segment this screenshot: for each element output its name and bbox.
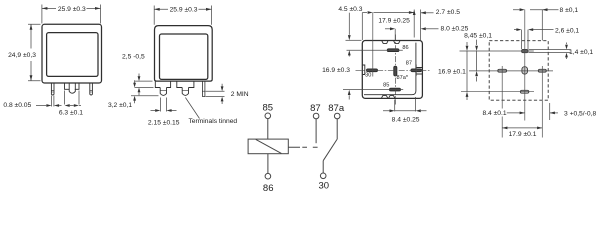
dim 25.9 view2: dim line: [154, 8, 211, 10]
dim 3.2 view2: ext line: [131, 95, 159, 97]
view1 right pin tin mark: [90, 91, 93, 92]
view3 slot 86: [387, 49, 399, 52]
contact blade: [323, 139, 337, 160]
dim 8 view4: line and arrows: [513, 9, 559, 11]
slots of view3: [367, 49, 422, 91]
view1 left pin: [51, 83, 54, 95]
view3 slot 30: [367, 69, 378, 72]
dim 0.8 view1: line and arrows: [36, 105, 46, 107]
svg-text:6.3 ±0.1: 6.3 ±0.1: [59, 110, 83, 117]
view2 center pin: [182, 88, 188, 96]
view4 pin 87a cross-section: [522, 67, 528, 74]
view4 pin 86 cross-section: [522, 50, 528, 53]
view1 center terminal collar: [65, 83, 80, 89]
view3 CL ext above box: [394, 29, 396, 40]
svg-text:2,5 -0,5: 2,5 -0,5: [122, 53, 145, 60]
view3 left edge notch: [363, 65, 365, 75]
dimension graphics: [28, 5, 571, 130]
terminals tinned leader: [185, 98, 199, 119]
dim 16.9 view3: bottom arrow: [348, 95, 350, 99]
dim 17.9 view4: line and arrows: [502, 127, 542, 129]
view1 inner cover line: [47, 33, 98, 77]
actuator dashed link: [288, 146, 317, 148]
view3 base outline: [362, 41, 422, 99]
wire blade to 30: [322, 161, 324, 174]
dim 16.9 view3: top ext line: [346, 39, 362, 41]
view1 left pin tin mark: [51, 91, 54, 92]
wire 87a stub: [336, 119, 338, 140]
view2 center pin tin mark: [182, 89, 188, 91]
view2 inner cover line: [160, 34, 208, 79]
view2 left pin tin mark: [160, 89, 166, 91]
view3 right edge cutout: [416, 68, 422, 75]
view1 right pin: [90, 83, 93, 95]
dim 3.2 view2: arrows: [134, 80, 136, 103]
dim 6.3 view1: ext lines: [65, 91, 80, 105]
view3 slot87 crosshair vertical: [415, 65, 417, 77]
dim 25.9 view1: arrows: [42, 7, 48, 10]
dim 16.9 view3: bottom ext line: [343, 89, 403, 91]
dim 0.8 view1: ext lines: [52, 96, 54, 107]
view4 vertical centerline: [524, 10, 526, 121]
dim 1.4 view4: arrows: [566, 43, 568, 60]
dim 8.4 view3: ext lines: [395, 97, 416, 112]
svg-text:25.9 ±0.3: 25.9 ±0.3: [58, 6, 86, 13]
svg-text:17.9 ±0.1: 17.9 ±0.1: [509, 131, 537, 138]
view4 pin87 crosshair vertical: [541, 66, 543, 138]
svg-text:2.7 ±0.5: 2.7 ±0.5: [436, 9, 460, 16]
svg-text:3 +0,5/-0,8: 3 +0,5/-0,8: [564, 111, 596, 118]
dim 2.15 view2: line and arrows: [151, 110, 177, 112]
view3 ext line x414: [413, 10, 415, 38]
svg-text:86: 86: [402, 45, 408, 51]
svg-text:30: 30: [319, 181, 330, 192]
dim 8.4 view4: line and arrows: [507, 112, 525, 114]
svg-text:30: 30: [365, 73, 371, 79]
svg-text:25.9 ±0.3: 25.9 ±0.3: [170, 7, 198, 14]
view1 outer case: [42, 24, 102, 83]
terminal circle 87: [313, 113, 319, 119]
svg-text:87: 87: [406, 60, 412, 66]
view2 right thin pin: [202, 81, 205, 97]
dim 8.0 view3: left segment: [385, 28, 390, 30]
view3 ext line x420.6: [420, 10, 422, 41]
dim 8.4 view3: line and arrows: [383, 110, 427, 112]
svg-text:8 ±0,1: 8 ±0,1: [560, 7, 579, 14]
view2 left pedestal: [155, 81, 170, 87]
dim 2.5 view2: arrows: [138, 74, 140, 96]
wire 85 to coil: [267, 119, 269, 140]
svg-text:8.4 ±0.1: 8.4 ±0.1: [482, 110, 506, 117]
svg-text:4.5 ±0.3: 4.5 ±0.3: [338, 6, 362, 13]
svg-text:8,45 ±0,1: 8,45 ±0,1: [464, 33, 492, 40]
dim 16.9 view4: arrows: [466, 42, 468, 100]
svg-text:17.9 ±0.25: 17.9 ±0.25: [378, 17, 410, 24]
dim 2.5 view2: ext lines: [135, 81, 154, 87]
dim 2.6 view4: ext lines: [522, 30, 528, 49]
view2 left pin: [160, 88, 166, 96]
view3 slot 85: [390, 88, 401, 91]
svg-text:16.9 ±0.3: 16.9 ±0.3: [322, 67, 350, 74]
dim 17.9 view3: line to right arrow: [374, 12, 415, 14]
svg-text:0.8 ±0.05: 0.8 ±0.05: [3, 102, 31, 109]
svg-text:3,2 ±0,1: 3,2 ±0,1: [108, 102, 132, 109]
view4 pin85 row line: [461, 91, 534, 93]
view3 slot86 row ext line: [347, 49, 403, 51]
view3 top notch left: [382, 41, 388, 44]
dim 25.9 view2: ext lines: [154, 6, 211, 25]
dim 8.45 view4: arrows: [476, 40, 478, 82]
view3 left edge ext line up: [361, 13, 363, 41]
dim 6.3 view1: line and arrows: [65, 104, 70, 107]
view1 center terminal tip: [69, 83, 75, 93]
svg-text:87: 87: [310, 103, 321, 114]
view3 bottom notch right: [389, 96, 395, 99]
dim 2.15 view2: ext lines: [160, 98, 166, 112]
dim 24.9 view1: dim line: [30, 24, 32, 81]
coil K1: [248, 139, 288, 154]
view3 slot30 crosshair vertical: [372, 13, 374, 77]
dim 2 MIN view2: ext lines: [206, 91, 225, 96]
svg-text:87a: 87a: [328, 103, 345, 114]
view3 top notch right: [394, 41, 400, 44]
svg-text:85: 85: [263, 102, 274, 113]
pins of view4: [498, 50, 547, 94]
view4 pin 87 cross-section: [538, 69, 546, 72]
dim 24.9 view1: arrows: [30, 24, 33, 30]
svg-text:2.15 ±0.15: 2.15 ±0.15: [148, 119, 180, 126]
view2 outer case: [155, 26, 213, 82]
view4 dashed case outline: [489, 41, 548, 100]
svg-text:16.9 ±0.1: 16.9 ±0.1: [438, 68, 466, 75]
svg-text:8.4 ±0.25: 8.4 ±0.25: [392, 116, 420, 123]
view2 center pedestal: [177, 81, 194, 87]
view4 pin87 upper ext line: [541, 10, 543, 41]
dim 2 MIN view2: arrows: [221, 84, 223, 104]
view2 right pin tin mark: [202, 90, 205, 92]
view4 horizontal centerline: [469, 70, 553, 72]
view3 slot 87a: [394, 66, 397, 76]
svg-text:2 MIN: 2 MIN: [231, 91, 249, 98]
view3 slot 87: [411, 69, 422, 72]
dim 25.9 view2: arrows: [154, 8, 160, 11]
terminal circle 86: [265, 173, 271, 179]
svg-text:2,6 ±0,1: 2,6 ±0,1: [555, 27, 579, 34]
wire coil to 86: [267, 154, 269, 174]
svg-text:24,9 ±0,3: 24,9 ±0,3: [8, 52, 36, 59]
view4 pin 85 cross-section: [520, 90, 528, 93]
terminal circle 85: [265, 113, 271, 119]
view3 vertical centerline: [395, 35, 397, 105]
dim 25.9 view1: dim line: [42, 7, 101, 9]
view3 horizontal centerline: [356, 69, 430, 71]
wire 87 stub: [315, 119, 317, 144]
view4 pin30 crosshair vertical: [501, 66, 503, 138]
dim 2.6 view4: line and arrows: [514, 29, 554, 31]
svg-text:1,4 ±0,1: 1,4 ±0,1: [569, 49, 593, 56]
coil diagonal: [256, 139, 282, 153]
svg-text:86: 86: [263, 183, 274, 194]
dim 1.4 view4: ext lines: [529, 50, 571, 53]
view3 slot labels: [365, 45, 412, 89]
terminal circle 87a: [334, 113, 340, 119]
view4 pin86 row line: [460, 50, 534, 52]
schematic: [248, 113, 340, 179]
dim 3 view4: arrow: [550, 112, 558, 114]
terminal circle 30: [320, 173, 326, 179]
view3 inner base edge right and bottom: [364, 43, 416, 95]
dim 25.9 view1: ext lines: [42, 5, 101, 24]
view3 bottom notch left: [381, 96, 387, 99]
svg-text:87a*: 87a*: [397, 75, 409, 81]
dim 8.0 view3: right segment: [426, 28, 439, 30]
svg-text:85: 85: [383, 83, 389, 89]
centerlines: [356, 10, 554, 138]
dim 4.5 view3: line and arrow: [363, 12, 368, 14]
dim 16.9 view3: top arrow: [348, 13, 350, 35]
dim 24.9 view1: ext lines: [28, 24, 41, 81]
dim 3 view4: ext line: [549, 103, 551, 120]
view4 pin 30 cross-section: [498, 69, 507, 72]
dim 2.7 view3: line and arrow: [421, 12, 434, 14]
svg-text:Terminals tinned: Terminals tinned: [188, 118, 237, 125]
